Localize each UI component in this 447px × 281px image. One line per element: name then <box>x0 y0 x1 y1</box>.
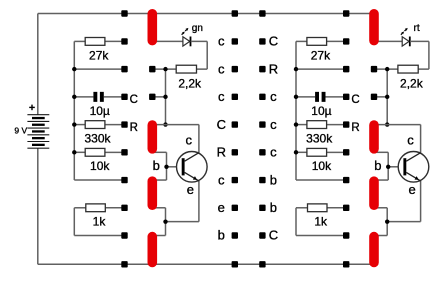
capacitor C 10µ <box>90 92 110 118</box>
wire capacitor right lead <box>104 96 125 98</box>
junction emitter node <box>385 219 389 223</box>
contact strip segment 1 <box>148 9 158 45</box>
wire 10k left lead <box>74 151 85 153</box>
wire 1k left lead <box>74 207 86 209</box>
resistor R 2,2k <box>398 65 424 90</box>
wire row6 jumper <box>296 179 346 181</box>
svg-text:10k: 10k <box>90 159 110 173</box>
wire 2.2k right lead <box>418 68 429 70</box>
wire collector vertical <box>198 125 200 153</box>
svg-text:330k: 330k <box>306 131 333 145</box>
resistor R 27k <box>307 38 331 63</box>
svg-text:C: C <box>217 117 226 132</box>
node top bus hole <box>343 10 349 16</box>
resistor R 1k <box>86 204 107 229</box>
svg-text:gn: gn <box>192 23 203 34</box>
wire strip to collector <box>374 124 421 126</box>
resistor R 10k <box>85 148 110 172</box>
svg-text:330k: 330k <box>84 131 111 145</box>
node hole row3 <box>121 94 127 100</box>
junction row3 <box>163 95 167 99</box>
resistor R 27k <box>85 38 109 63</box>
wire base lead <box>388 166 403 168</box>
wire top supply bus <box>38 13 374 15</box>
svg-text:b: b <box>153 158 160 173</box>
node top bus hole <box>121 10 127 16</box>
svg-text:c: c <box>270 89 277 104</box>
wire strip row8 stub <box>152 235 165 237</box>
svg-text:1k: 1k <box>93 215 107 229</box>
node hole row7 <box>121 205 127 211</box>
wire 1k left lead <box>296 207 308 209</box>
contact strip segment 2 <box>148 120 158 153</box>
wire bottom supply bus <box>38 263 374 265</box>
wire supply rail <box>295 41 297 180</box>
wire row2 jumper <box>74 68 124 70</box>
node bottom bus hole <box>259 261 265 267</box>
svg-text:c: c <box>218 61 225 76</box>
svg-text:C: C <box>269 228 278 243</box>
wire LED down to 2.2k <box>428 41 430 69</box>
svg-text:2,2k: 2,2k <box>400 76 424 90</box>
wire 10k left lead <box>296 151 307 153</box>
node hole row5 <box>343 149 349 155</box>
wire strip hole row3 stub <box>374 96 387 98</box>
node top bus hole <box>259 10 265 16</box>
wire strip row7 stub <box>152 207 165 209</box>
junction base node <box>164 165 168 169</box>
junction rail row3 <box>72 95 76 99</box>
svg-text:R: R <box>351 122 359 134</box>
svg-text:10µ: 10µ <box>90 104 110 118</box>
wire 2.2k left lead <box>166 68 177 70</box>
wire row8 jumper <box>296 235 346 237</box>
wire emitter vertical <box>420 181 422 222</box>
svg-text:10µ: 10µ <box>311 104 331 118</box>
svg-text:b: b <box>270 200 277 215</box>
wire strip hole row2 stub <box>152 68 165 70</box>
wire capacitor left lead <box>74 96 93 98</box>
node hole row2 <box>121 66 127 72</box>
wire strip row7 stub <box>374 207 387 209</box>
wire 330k left lead <box>74 124 85 126</box>
node grid: left dot column <box>232 38 238 44</box>
junction rail row5 <box>72 150 76 154</box>
wire 1k loop vertical <box>73 208 75 236</box>
junction rail row4 <box>72 122 76 126</box>
svg-text:c: c <box>218 89 225 104</box>
resistor R 10k <box>307 148 332 172</box>
contact strip segment 3 <box>369 176 379 210</box>
node hole row8 <box>343 232 349 238</box>
wire LED cathode <box>191 40 208 42</box>
wire 2.2k right lead <box>197 68 208 70</box>
wire vertical rows5-6 <box>166 152 168 180</box>
transistor T2 (NPN) <box>398 133 429 198</box>
svg-text:c: c <box>218 172 225 187</box>
junction rail row3 <box>294 95 298 99</box>
node grid: right dot column <box>259 38 265 44</box>
junction row2 <box>385 67 389 71</box>
node hole row1 <box>343 38 349 44</box>
wire strip row5 stub <box>152 151 166 153</box>
wire LED cathode <box>410 40 429 42</box>
node hole row3 <box>343 94 349 100</box>
svg-text:e: e <box>187 182 194 197</box>
wire vertical rows5-6 <box>387 152 389 180</box>
wire 27k right lead <box>105 40 125 42</box>
node bottom bus hole <box>121 261 127 267</box>
wire strip row6 stub <box>152 179 166 181</box>
wire 1k right lead <box>327 207 347 209</box>
junction emitter node <box>163 219 167 223</box>
contact strip segment 4 <box>148 232 158 267</box>
svg-text:C: C <box>351 94 359 106</box>
svg-text:1k: 1k <box>314 215 328 229</box>
svg-text:R: R <box>269 61 278 76</box>
node strip hole row3 <box>371 94 377 100</box>
node hole row7 <box>343 205 349 211</box>
junction row2 <box>163 67 167 71</box>
svg-text:c: c <box>270 117 277 132</box>
wire 27k right lead <box>327 40 347 42</box>
svg-text:c: c <box>407 133 414 148</box>
wire 10k right lead <box>327 151 347 153</box>
wire 330k right lead <box>327 124 347 126</box>
contact strip segment 3 <box>148 176 158 210</box>
svg-text:10k: 10k <box>312 159 332 173</box>
node hole row6 <box>343 177 349 183</box>
svg-text:c: c <box>186 133 193 148</box>
wire strip hole row3 stub <box>152 96 165 98</box>
wire vertical rows2-4 <box>386 69 388 124</box>
wire 2.2k left lead <box>387 68 398 70</box>
wire row8 jumper <box>74 235 124 237</box>
wire 27k left lead <box>74 40 85 42</box>
transistor T1 (NPN) <box>177 133 208 198</box>
wire base lead <box>167 166 182 168</box>
svg-text:27k: 27k <box>89 48 109 62</box>
node top bus hole <box>232 10 238 16</box>
wire 27k left lead <box>296 40 307 42</box>
junction rail row2 <box>72 67 76 71</box>
junction rail row5 <box>294 150 298 154</box>
svg-text:9 V: 9 V <box>14 126 27 136</box>
wire vertical rows2-4 <box>165 69 167 124</box>
capacitor C 10µ <box>311 92 331 118</box>
wire vertical rows7-8 <box>165 208 167 236</box>
wire emitter vertical <box>198 181 200 222</box>
resistor R 1k <box>308 204 329 229</box>
node hole row4 <box>343 121 349 127</box>
svg-text:e: e <box>218 200 225 215</box>
wire capacitor right lead <box>326 96 347 98</box>
svg-text:R: R <box>130 122 138 134</box>
svg-text:27k: 27k <box>311 48 331 62</box>
svg-text:rt: rt <box>414 23 420 34</box>
svg-text:2,2k: 2,2k <box>178 76 202 90</box>
wire row2 jumper <box>296 68 346 70</box>
wire collector vertical <box>420 125 422 153</box>
node strip hole row2 <box>149 66 155 72</box>
wire emitter horizontal <box>166 221 199 223</box>
junction row3 <box>385 95 389 99</box>
junction rail row2 <box>294 67 298 71</box>
wire emitter horizontal <box>387 221 420 223</box>
wire 10k right lead <box>105 151 125 153</box>
svg-text:c: c <box>270 145 277 160</box>
node hole row5 <box>121 149 127 155</box>
battery BT1 9V <box>14 14 49 265</box>
node hole row1 <box>121 38 127 44</box>
wire LED down to 2.2k <box>206 41 208 69</box>
junction row4 <box>385 122 389 126</box>
contact strip segment 2 <box>369 120 379 153</box>
wire vertical rows7-8 <box>386 208 388 236</box>
contact strip segment 1 <box>369 9 379 45</box>
svg-text:b: b <box>218 228 225 243</box>
svg-text:e: e <box>408 182 415 197</box>
wire strip hole row2 stub <box>374 68 387 70</box>
junction rail row4 <box>294 122 298 126</box>
node bottom bus hole <box>232 261 238 267</box>
wire capacitor left lead <box>296 96 315 98</box>
wire strip row6 stub <box>374 179 388 181</box>
wire 1k right lead <box>105 207 125 209</box>
svg-text:R: R <box>217 145 226 160</box>
node bottom bus hole <box>343 261 349 267</box>
node hole row2 <box>343 66 349 72</box>
wire row6 jumper <box>74 179 124 181</box>
svg-text:C: C <box>269 34 278 49</box>
resistor R 2,2k <box>176 65 202 90</box>
wire 330k left lead <box>296 124 307 126</box>
svg-text:c: c <box>218 34 225 49</box>
wire strip row5 stub <box>374 151 388 153</box>
wire strip to LED anode <box>374 40 402 42</box>
wire 1k loop vertical <box>295 208 297 236</box>
svg-text:b: b <box>374 158 381 173</box>
LED D2 red <box>401 23 420 46</box>
junction row4 <box>163 122 167 126</box>
svg-text:b: b <box>270 172 277 187</box>
wire strip row8 stub <box>374 235 387 237</box>
LED D1 green <box>182 23 203 46</box>
resistor R 330k <box>84 121 111 146</box>
contact strip segment 4 <box>369 232 379 267</box>
node strip hole row2 <box>371 66 377 72</box>
wire 330k right lead <box>105 124 125 126</box>
node hole row8 <box>121 232 127 238</box>
junction base node <box>386 165 390 169</box>
node strip hole row3 <box>149 94 155 100</box>
wire supply rail <box>73 41 75 180</box>
wire strip to LED anode <box>152 40 183 42</box>
wire strip to collector <box>152 124 199 126</box>
resistor R 330k <box>306 121 333 146</box>
svg-text:C: C <box>130 94 138 106</box>
node hole row4 <box>121 121 127 127</box>
node hole row6 <box>121 177 127 183</box>
